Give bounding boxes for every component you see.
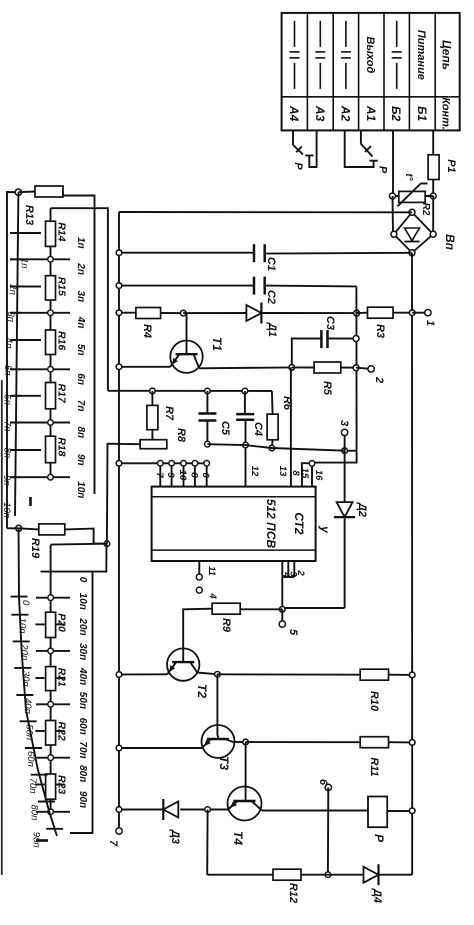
label R17 <box>56 384 68 404</box>
upper left label 3п <box>5 312 16 323</box>
pin stub 7 <box>157 461 163 487</box>
node C5 bottom <box>205 441 211 447</box>
lower tap node 10п <box>48 595 54 601</box>
wire T1 collector net <box>199 366 292 369</box>
lower left label 0 <box>20 600 31 606</box>
svg-text:Т4: Т4 <box>231 831 245 845</box>
svg-text:R6: R6 <box>281 396 293 411</box>
upper left label 7п <box>2 421 13 432</box>
svg-text:Вп: Вп <box>443 234 457 251</box>
upper left label 8п <box>2 448 13 459</box>
capacitor C2 <box>254 277 265 295</box>
lower contact tick 20п <box>35 623 64 625</box>
svg-text:Б1: Б1 <box>415 106 429 121</box>
svg-text:Т2: Т2 <box>195 684 209 698</box>
node T2 collector <box>215 672 221 678</box>
transistor T2 <box>167 648 199 680</box>
terminal 4 (jumper) <box>196 587 202 593</box>
resistor R9 <box>212 603 240 614</box>
label Т3 <box>217 756 231 770</box>
pin label 8 <box>290 470 301 476</box>
resistor R18 <box>46 436 56 463</box>
wire C4 bottom lead <box>245 420 247 445</box>
svg-text:40п: 40п <box>22 698 33 715</box>
svg-text:Р: Р <box>377 166 389 174</box>
upper tap node 6п <box>48 367 54 373</box>
label Т4 <box>231 831 245 845</box>
resistor R3 <box>368 307 394 318</box>
capacitor C1 <box>254 244 265 262</box>
wire lower wiper line <box>19 528 58 836</box>
wire pins 7-9-10-8-6 bus <box>119 462 207 464</box>
wire row-391 vertical <box>108 390 272 392</box>
svg-text:9п: 9п <box>75 454 86 466</box>
upper right label 1п <box>75 237 86 249</box>
wire R3 lead <box>357 312 368 314</box>
diode Д1 <box>246 303 261 324</box>
wire R3 to rail <box>393 312 412 314</box>
upper wiper tick 5п <box>10 339 21 341</box>
upper right label 7п <box>75 400 86 412</box>
upper wiper tick 6п <box>10 368 21 370</box>
upper tap line 6п <box>10 368 70 370</box>
node 5 junction <box>280 607 286 613</box>
label R10 <box>368 691 380 712</box>
svg-text:4: 4 <box>207 592 218 599</box>
resistor R5 <box>314 362 341 373</box>
wire R6 bottom lead <box>271 440 274 448</box>
svg-text:А2: А2 <box>338 105 352 122</box>
wire C2 to net-X <box>265 285 357 288</box>
upper contact tick 5п <box>12 339 41 341</box>
svg-text:Д4: Д4 <box>371 888 383 903</box>
label Р (contact 2) <box>377 166 389 174</box>
label R7 <box>163 406 175 421</box>
resistor R11 <box>360 737 388 748</box>
wire T1-base node to Д1 <box>183 312 247 314</box>
lower tap line 30п <box>36 650 70 652</box>
label R18 <box>56 437 68 456</box>
svg-text:10п: 10п <box>75 481 86 498</box>
upper contact tick 3п <box>12 286 41 288</box>
wire node1 stub <box>412 312 428 314</box>
lower tap line 10п <box>36 597 70 599</box>
relay Р coil <box>368 797 387 828</box>
svg-text:50п: 50п <box>77 692 88 709</box>
svg-text:R7: R7 <box>163 406 175 421</box>
wire R13 top lead <box>18 191 35 194</box>
upper contact tick 1п <box>12 232 41 234</box>
node 1 junction <box>409 310 415 316</box>
node Д3 rail <box>116 807 122 813</box>
svg-text:R16: R16 <box>56 331 68 350</box>
node R6 bottom <box>269 445 275 451</box>
table contact text Б2 <box>389 106 403 121</box>
node pins-bus rail <box>116 461 122 467</box>
svg-text:1п: 1п <box>75 237 86 249</box>
wire C3 lower lead <box>292 339 322 368</box>
diode Д2 <box>334 502 355 517</box>
upper wiper tick 8п <box>10 422 21 424</box>
svg-text:7п: 7п <box>75 400 86 412</box>
upper wiper tick 9п <box>10 449 21 451</box>
svg-text:40п: 40п <box>77 667 88 685</box>
wire lower frame <box>70 572 93 833</box>
label У <box>318 525 332 534</box>
svg-text:R8: R8 <box>175 428 187 443</box>
wire contact А4 stub <box>292 130 294 145</box>
upper tap node 10п <box>48 474 54 480</box>
node pin16 <box>309 461 315 467</box>
lower contact tick 60п <box>35 730 64 732</box>
node T3 collector <box>243 739 249 745</box>
svg-text:60п: 60п <box>77 718 88 735</box>
upper wiper tick 4п <box>10 312 21 314</box>
svg-text:СТ2: СТ2 <box>292 512 306 535</box>
wire bottom row link <box>207 444 344 451</box>
pin stub 9 <box>169 461 175 487</box>
svg-text:R11: R11 <box>368 757 380 776</box>
label R11 <box>368 757 380 776</box>
svg-text:2п: 2п <box>7 283 18 295</box>
pin label 6 <box>200 472 211 478</box>
wire bridge-left to left rail <box>119 211 412 213</box>
svg-text:R3: R3 <box>374 324 386 338</box>
label R5 <box>321 381 333 396</box>
node T3 emitter rail <box>116 745 122 751</box>
resistor R13 <box>35 186 63 197</box>
label R12 <box>287 883 299 903</box>
pin 12 lead <box>245 445 247 487</box>
lower tap node 70п <box>48 755 54 761</box>
terminal 7 <box>116 828 122 834</box>
svg-text:30п: 30п <box>77 643 88 660</box>
svg-text:А4: А4 <box>287 105 301 122</box>
wire right rail (+) <box>411 253 413 875</box>
label R9 <box>220 618 232 633</box>
svg-text:10п: 10п <box>77 593 88 610</box>
svg-text:8п: 8п <box>75 427 86 439</box>
resistor Р20 <box>46 612 56 637</box>
label Т2 <box>195 684 209 698</box>
upper tap line 10п <box>10 476 70 478</box>
lower left label 60п <box>25 751 36 768</box>
svg-text:50п: 50п <box>24 724 35 741</box>
svg-text:R15: R15 <box>56 277 68 296</box>
upper tap line 2п <box>10 258 70 260</box>
pin 13 lead <box>290 367 292 486</box>
pin label 13 <box>277 466 288 477</box>
wire left rail (common) <box>118 212 120 831</box>
switch contact P (А4–А3) arm <box>293 145 303 155</box>
svg-text:R4: R4 <box>141 324 153 338</box>
svg-text:0: 0 <box>20 600 31 606</box>
wire R10 to rail <box>389 674 413 676</box>
svg-text:Д1: Д1 <box>266 322 278 337</box>
node R2 top <box>430 193 436 199</box>
lower wiper tick 60п <box>25 747 42 749</box>
lower left label 30п <box>20 671 31 688</box>
table contact text А3 <box>313 105 327 122</box>
node R7 top <box>150 388 156 394</box>
lower left label 70п <box>27 778 38 795</box>
wire collector node to R5 <box>292 366 314 368</box>
lower wiper tick 30п <box>14 667 31 669</box>
table contact text А2 <box>338 105 352 122</box>
lower wiper tick 10п <box>11 614 28 616</box>
wire T2 emitter to rail <box>119 673 167 675</box>
wire bottom line <box>207 874 412 876</box>
IC У1 body <box>152 487 316 561</box>
pin label 11 <box>206 566 217 576</box>
upper left label 6п <box>2 394 13 405</box>
svg-text:С1: С1 <box>265 257 277 271</box>
wire R19 to junction <box>65 529 107 544</box>
terminal 3 <box>341 429 347 435</box>
svg-text:Д3: Д3 <box>169 829 181 844</box>
upper ladder frame end mark <box>29 497 32 506</box>
label Р20 <box>56 613 68 632</box>
svg-text:R17: R17 <box>56 384 68 404</box>
pin label 10 <box>177 470 188 481</box>
wire C1 row <box>119 252 412 255</box>
label R6 <box>281 396 293 411</box>
upper left label 9п <box>1 475 12 486</box>
svg-text:5п: 5п <box>75 344 86 356</box>
upper wiper tick 2п <box>10 258 21 260</box>
label С4 <box>252 422 264 436</box>
svg-text:Д2: Д2 <box>356 502 368 517</box>
pin 15 lead <box>302 463 312 486</box>
lower tap node 30п <box>48 648 54 654</box>
wire R7-R8 <box>151 430 153 441</box>
table row text Питание <box>415 30 427 80</box>
terminal ladder top <box>15 189 21 195</box>
lower right label 80п <box>77 765 88 782</box>
svg-text:80п: 80п <box>29 805 40 822</box>
svg-text:6п: 6п <box>75 373 86 385</box>
label 3 <box>338 420 350 426</box>
svg-text:Конт.: Конт. <box>440 97 452 129</box>
label t° <box>403 173 414 181</box>
diode Д3 <box>163 799 178 820</box>
wire R13 to frame <box>63 192 95 495</box>
wire T3coll to T4 base <box>245 742 247 801</box>
svg-text:80п: 80п <box>77 765 88 782</box>
upper tap line 8п <box>10 422 70 424</box>
node R11 rail <box>409 740 415 746</box>
svg-text:6: 6 <box>200 472 211 478</box>
table row symbol —||— (А4) <box>290 21 300 89</box>
wire R19 top lead <box>19 528 39 529</box>
svg-text:60п: 60п <box>25 751 36 768</box>
lower right label 60п <box>77 718 88 735</box>
wire Д2 to node5 line <box>282 608 344 609</box>
upper right label 5п <box>75 344 86 356</box>
table contact text Б1 <box>415 106 429 121</box>
wire T4 emitter line <box>180 809 228 811</box>
wire R11 branch <box>246 741 361 743</box>
label R4 <box>141 324 153 338</box>
svg-text:С3: С3 <box>324 316 336 330</box>
lower wiper tick 80п <box>38 801 55 803</box>
wire C5 top lead <box>206 391 208 413</box>
svg-text:2: 2 <box>373 376 385 383</box>
label С3 <box>324 316 336 330</box>
lower tap line 70п <box>36 757 70 759</box>
svg-text:70п: 70п <box>27 778 38 795</box>
svg-text:t°: t° <box>403 173 414 181</box>
svg-text:R5: R5 <box>321 381 333 396</box>
svg-text:С2: С2 <box>265 290 277 304</box>
upper right label 2п <box>75 262 86 275</box>
resistor R16 <box>46 330 56 355</box>
pin stub 8 <box>192 461 198 487</box>
resistor R10 <box>360 669 388 680</box>
node R12 branch <box>205 807 211 813</box>
lower right label 30п <box>77 643 88 660</box>
table row symbol —||— (А3) <box>315 21 325 89</box>
lower ladder frame end mark <box>36 839 48 842</box>
node R4 left-rail <box>116 310 122 316</box>
wire upper chain <box>50 208 52 477</box>
lower right label 20п <box>77 617 88 635</box>
lower tap line 90п <box>36 811 70 813</box>
table row symbol —||— (Б2) <box>392 21 402 89</box>
svg-text:Т1: Т1 <box>210 337 224 351</box>
wire R1 to bridge node <box>432 180 434 197</box>
svg-text:Р1: Р1 <box>445 159 457 172</box>
upper right label 8п <box>75 427 86 439</box>
wire R14-top to circuit <box>51 208 108 391</box>
label С5 <box>219 421 231 436</box>
node T1 base <box>180 310 186 316</box>
svg-text:15: 15 <box>299 468 310 479</box>
wire C2 row lower <box>119 285 254 287</box>
svg-text:2: 2 <box>295 569 306 576</box>
wire R10 branch <box>217 673 360 675</box>
svg-text:Питание: Питание <box>415 30 427 80</box>
svg-text:4п: 4п <box>75 316 86 329</box>
table header text Цепь <box>440 40 454 70</box>
resistor R15 <box>46 276 56 300</box>
label 7 <box>107 840 119 847</box>
terminal 6 <box>325 784 331 790</box>
upper wiper tick 10п <box>10 476 21 478</box>
label R3 <box>374 324 386 338</box>
wire nodeA stub to netX <box>345 450 358 452</box>
svg-text:512 ПСВ: 512 ПСВ <box>264 499 278 549</box>
wire Д2 line <box>344 451 346 608</box>
lower wiper tick 20п <box>13 640 30 642</box>
upper wiper tick 3п <box>10 286 21 288</box>
wire R6 top lead <box>271 391 274 414</box>
transistor T3 <box>202 725 235 758</box>
wire C4 top lead <box>244 391 246 414</box>
lower wiper tick 40п <box>16 694 33 696</box>
svg-text:30п: 30п <box>20 671 31 688</box>
table contact text А4 <box>287 105 301 122</box>
svg-text:5п: 5п <box>2 365 13 376</box>
upper left label 4п <box>3 338 14 349</box>
switch contact P (А1–А2) arm <box>361 144 373 157</box>
terminal 1 <box>425 310 431 316</box>
wire R5 to node <box>341 367 356 369</box>
label Д1 <box>266 322 278 337</box>
node C4 top <box>242 388 248 394</box>
lower right label 10п <box>77 593 88 610</box>
svg-text:0: 0 <box>77 577 88 583</box>
svg-text:Р: Р <box>292 162 304 170</box>
transistor T1 <box>170 313 203 373</box>
node T2 emitter rail <box>116 672 122 678</box>
upper left label 5п <box>2 365 13 376</box>
wire R2 branch <box>393 195 434 197</box>
wire R8 to ladder junction <box>107 444 140 544</box>
label Д2 <box>356 502 368 517</box>
svg-text:5: 5 <box>287 629 299 636</box>
wire T2 collector to node <box>197 673 217 675</box>
wire pin4 to node5 <box>281 577 283 609</box>
wire contact А3 stub <box>309 130 316 167</box>
pin label 7 <box>154 472 165 478</box>
lower right label 40п <box>77 667 88 685</box>
upper contact tick 9п <box>12 449 41 451</box>
capacitor C4 <box>236 414 254 420</box>
node C3 right <box>353 336 359 342</box>
node C5 top <box>205 388 211 394</box>
lower left label 20п <box>18 643 29 661</box>
IC label СТ2 <box>292 512 306 535</box>
wire node5 to R9 <box>240 608 282 610</box>
wire junction to zero tap <box>41 544 107 572</box>
svg-text:16: 16 <box>313 470 324 481</box>
label 4 (jumper) <box>207 592 218 599</box>
svg-text:8: 8 <box>188 472 199 478</box>
terminal 5 <box>279 621 285 627</box>
upper left label 2п <box>7 283 18 295</box>
pin label 9 <box>165 472 176 478</box>
svg-text:R18: R18 <box>56 437 68 456</box>
label R15 <box>56 277 68 296</box>
svg-text:Выход: Выход <box>364 37 376 74</box>
wire terminal3 stub <box>344 432 346 450</box>
svg-text:С4: С4 <box>252 422 264 436</box>
svg-text:6: 6 <box>317 779 329 786</box>
lower wiper tick 70п <box>31 774 48 776</box>
svg-text:Т3: Т3 <box>217 756 231 770</box>
table header text Конт. <box>440 97 452 129</box>
pin label 12 <box>249 466 260 477</box>
svg-text:R13: R13 <box>23 205 35 225</box>
svg-text:7: 7 <box>154 472 165 478</box>
pin 16 lead <box>311 463 313 486</box>
node bottom line <box>325 872 331 878</box>
wire junction to chain <box>51 543 107 546</box>
resistor R23 <box>46 774 56 799</box>
wire R11 to rail <box>389 741 413 743</box>
wire T3 emitter to rail <box>119 747 202 749</box>
wire R7 lead <box>151 391 153 405</box>
svg-text:А3: А3 <box>313 105 327 122</box>
wire L1 common <box>7 192 18 528</box>
svg-text:Б2: Б2 <box>389 106 403 121</box>
pin cluster 4-3-2 stubs <box>282 561 294 577</box>
wire R9 to T2 base <box>183 609 212 659</box>
pin label 8 <box>188 472 199 478</box>
wire bridge AC top <box>392 196 395 234</box>
upper right label 3п <box>75 291 86 303</box>
